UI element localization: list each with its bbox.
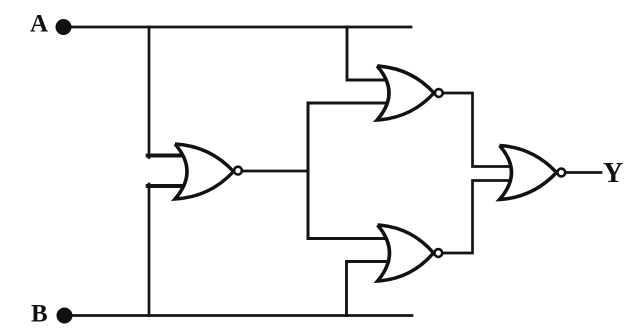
svg-text:B: B <box>31 301 48 328</box>
svg-text:A: A <box>30 11 48 38</box>
svg-text:Y: Y <box>603 158 623 189</box>
